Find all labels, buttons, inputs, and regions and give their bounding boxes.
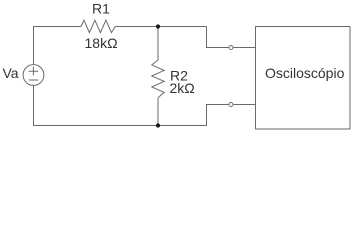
source plus sign bbox=[29, 67, 39, 76]
svg-text:Va: Va bbox=[3, 65, 19, 81]
node junction bottom bbox=[156, 123, 160, 127]
svg-text:18kΩ: 18kΩ bbox=[85, 35, 118, 51]
wire top terminal to box bbox=[233, 47, 255, 49]
node junction top bbox=[156, 24, 160, 28]
terminal bottom bbox=[229, 103, 233, 107]
wire top rail right bbox=[115, 26, 206, 28]
wire top drop to scope bbox=[207, 27, 229, 48]
voltage source Va bbox=[23, 65, 44, 86]
resistor R2 bbox=[152, 60, 164, 98]
wire source bottom lead bbox=[34, 85, 159, 125]
resistor R1 bbox=[81, 20, 115, 32]
wire R2 top lead bbox=[157, 27, 159, 61]
svg-text:Osciloscópio: Osciloscópio bbox=[265, 65, 345, 81]
source minus sign bbox=[29, 79, 39, 81]
wire bottom terminal to box bbox=[233, 104, 255, 106]
terminal top bbox=[229, 46, 233, 50]
wire top rail left bbox=[34, 27, 82, 65]
wire bottom rail right bbox=[158, 105, 229, 126]
svg-text:R1: R1 bbox=[92, 1, 110, 17]
svg-text:2kΩ: 2kΩ bbox=[170, 80, 195, 96]
oscilloscope box bbox=[256, 27, 351, 130]
wire R2 bottom lead bbox=[157, 98, 159, 126]
